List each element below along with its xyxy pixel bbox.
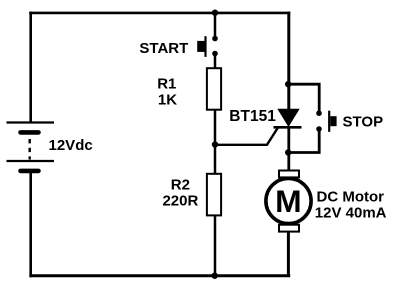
wire cathode down [287,127,290,170]
wire motor to bottom rail [287,232,290,277]
battery B1 [7,123,55,171]
node bottom junction [212,273,218,279]
wire R2 to bottom rail [214,216,217,276]
node cathode junction [285,149,291,155]
wire left rail lower (battery negative lead) [29,173,32,277]
svg-text:BT151: BT151 [229,108,276,125]
svg-text:STOP: STOP [343,113,384,130]
svg-text:1K: 1K [158,92,177,109]
svg-text:DC Motor: DC Motor [317,188,385,205]
motor M1 [266,171,311,232]
svg-text:R2: R2 [171,177,190,194]
svg-text:220R: 220R [162,192,198,209]
wire top rail [29,12,290,15]
svg-text:12Vdc: 12Vdc [49,137,93,154]
pushbutton S1 START [197,36,218,57]
wire STOP branch bottom [289,130,319,153]
resistor R2 [207,174,221,216]
node gate junction [212,141,218,147]
wire STOP branch top [289,84,319,111]
wire top junction to START [214,12,217,36]
thyristor BT151 [274,109,302,128]
node anode junction [285,81,291,87]
wire bottom rail [29,274,290,277]
pushbutton S2 STOP [316,110,336,131]
svg-text:R1: R1 [157,75,176,92]
wire gate to thyristor [215,128,278,145]
wire gate node to R2 [214,144,217,174]
svg-text:START: START [139,40,188,57]
svg-text:12V 40mA: 12V 40mA [315,205,387,222]
wire left rail upper (battery positive lead) [29,12,32,123]
wire START to R1 [214,54,217,69]
svg-text:M: M [275,183,302,219]
resistor R1 [207,68,221,110]
node top junction [212,10,218,16]
wire right rail (anode lead) [287,12,290,110]
wire R1 to gate node [214,110,217,145]
